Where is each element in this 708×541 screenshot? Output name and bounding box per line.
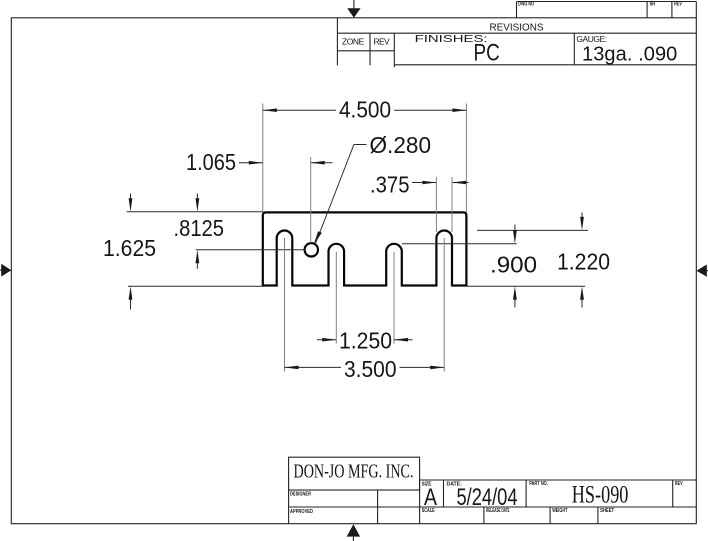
svg-text:ZONE: ZONE (342, 36, 365, 46)
leader for hole diameter (314, 132, 431, 245)
svg-text:13ga. .090: 13ga. .090 (582, 44, 677, 66)
bottom edge extension line right (466, 285, 585, 287)
svg-text:REV: REV (675, 481, 683, 487)
hole (305, 243, 318, 256)
svg-text:DWG NO: DWG NO (518, 2, 534, 8)
bottom edge extension line left (128, 285, 263, 287)
part outline (263, 212, 467, 285)
top DWG NO / SH / REV strip (517, 2, 697, 18)
svg-text:WEIGHT: WEIGHT (552, 508, 567, 514)
slot 1 centre line (284, 238, 286, 372)
dim .900 (490, 225, 537, 308)
svg-text:.375: .375 (370, 172, 410, 198)
title block: company box (289, 457, 420, 490)
dim 4.500 extension line right (465, 104, 467, 213)
svg-text:4.500: 4.500 (339, 97, 391, 123)
slot 4 extension lines (435, 177, 437, 232)
svg-text:REV: REV (674, 2, 682, 8)
svg-text:1.220: 1.220 (557, 249, 610, 275)
bottom center marker (347, 524, 360, 541)
top edge extension line (127, 211, 263, 213)
dim 4.500 (263, 97, 467, 123)
slot 4 centre line (443, 238, 445, 372)
dim .8125 (174, 194, 225, 269)
title block labels (290, 481, 683, 515)
svg-text:GAUGE:: GAUGE: (576, 34, 607, 44)
svg-text:HS-090: HS-090 (572, 482, 629, 509)
svg-text:PC: PC (474, 40, 500, 67)
hole centre line (196, 249, 305, 251)
svg-text:REVISIONS: REVISIONS (490, 22, 544, 34)
outer slot top extension line (477, 229, 588, 231)
svg-text:DON-JO MFG. INC.: DON-JO MFG. INC. (294, 460, 414, 482)
dim .375 (370, 172, 469, 198)
svg-text:3.500: 3.500 (344, 356, 397, 382)
dim 1.250 (317, 328, 413, 354)
dim 1.065 (186, 149, 333, 175)
svg-text:PART NO.: PART NO. (529, 481, 548, 487)
title block grid (289, 480, 697, 524)
inner slot top extension line (402, 243, 517, 245)
dim 1.625 (103, 194, 156, 310)
top center marker (347, 0, 360, 18)
svg-text:SH: SH (650, 2, 656, 8)
title block values (424, 482, 628, 511)
dim 4.500 extension line left (262, 104, 264, 213)
svg-text:SHEET: SHEET (600, 508, 614, 514)
hole vertical extension line (310, 157, 312, 243)
svg-text:1.250: 1.250 (339, 328, 392, 354)
dim 1.220 (557, 213, 610, 308)
slot 2 centre line (335, 252, 337, 344)
svg-text:.8125: .8125 (174, 215, 225, 241)
svg-text:DESIGNER: DESIGNER (290, 492, 311, 498)
svg-text:1.065: 1.065 (186, 149, 236, 175)
slot 3 centre line (393, 252, 395, 344)
left center marker (0, 264, 11, 277)
svg-text:APPROVED: APPROVED (290, 509, 313, 515)
svg-text:A: A (424, 484, 437, 511)
svg-text:1.625: 1.625 (103, 235, 156, 261)
revisions table (337, 18, 696, 67)
dim 3.500 (285, 356, 445, 382)
right center marker (696, 265, 708, 277)
svg-text:5/24/04: 5/24/04 (457, 484, 518, 511)
svg-text:.900: .900 (490, 252, 537, 278)
svg-text:REV: REV (374, 36, 391, 46)
svg-text:Ø.280: Ø.280 (370, 132, 432, 158)
